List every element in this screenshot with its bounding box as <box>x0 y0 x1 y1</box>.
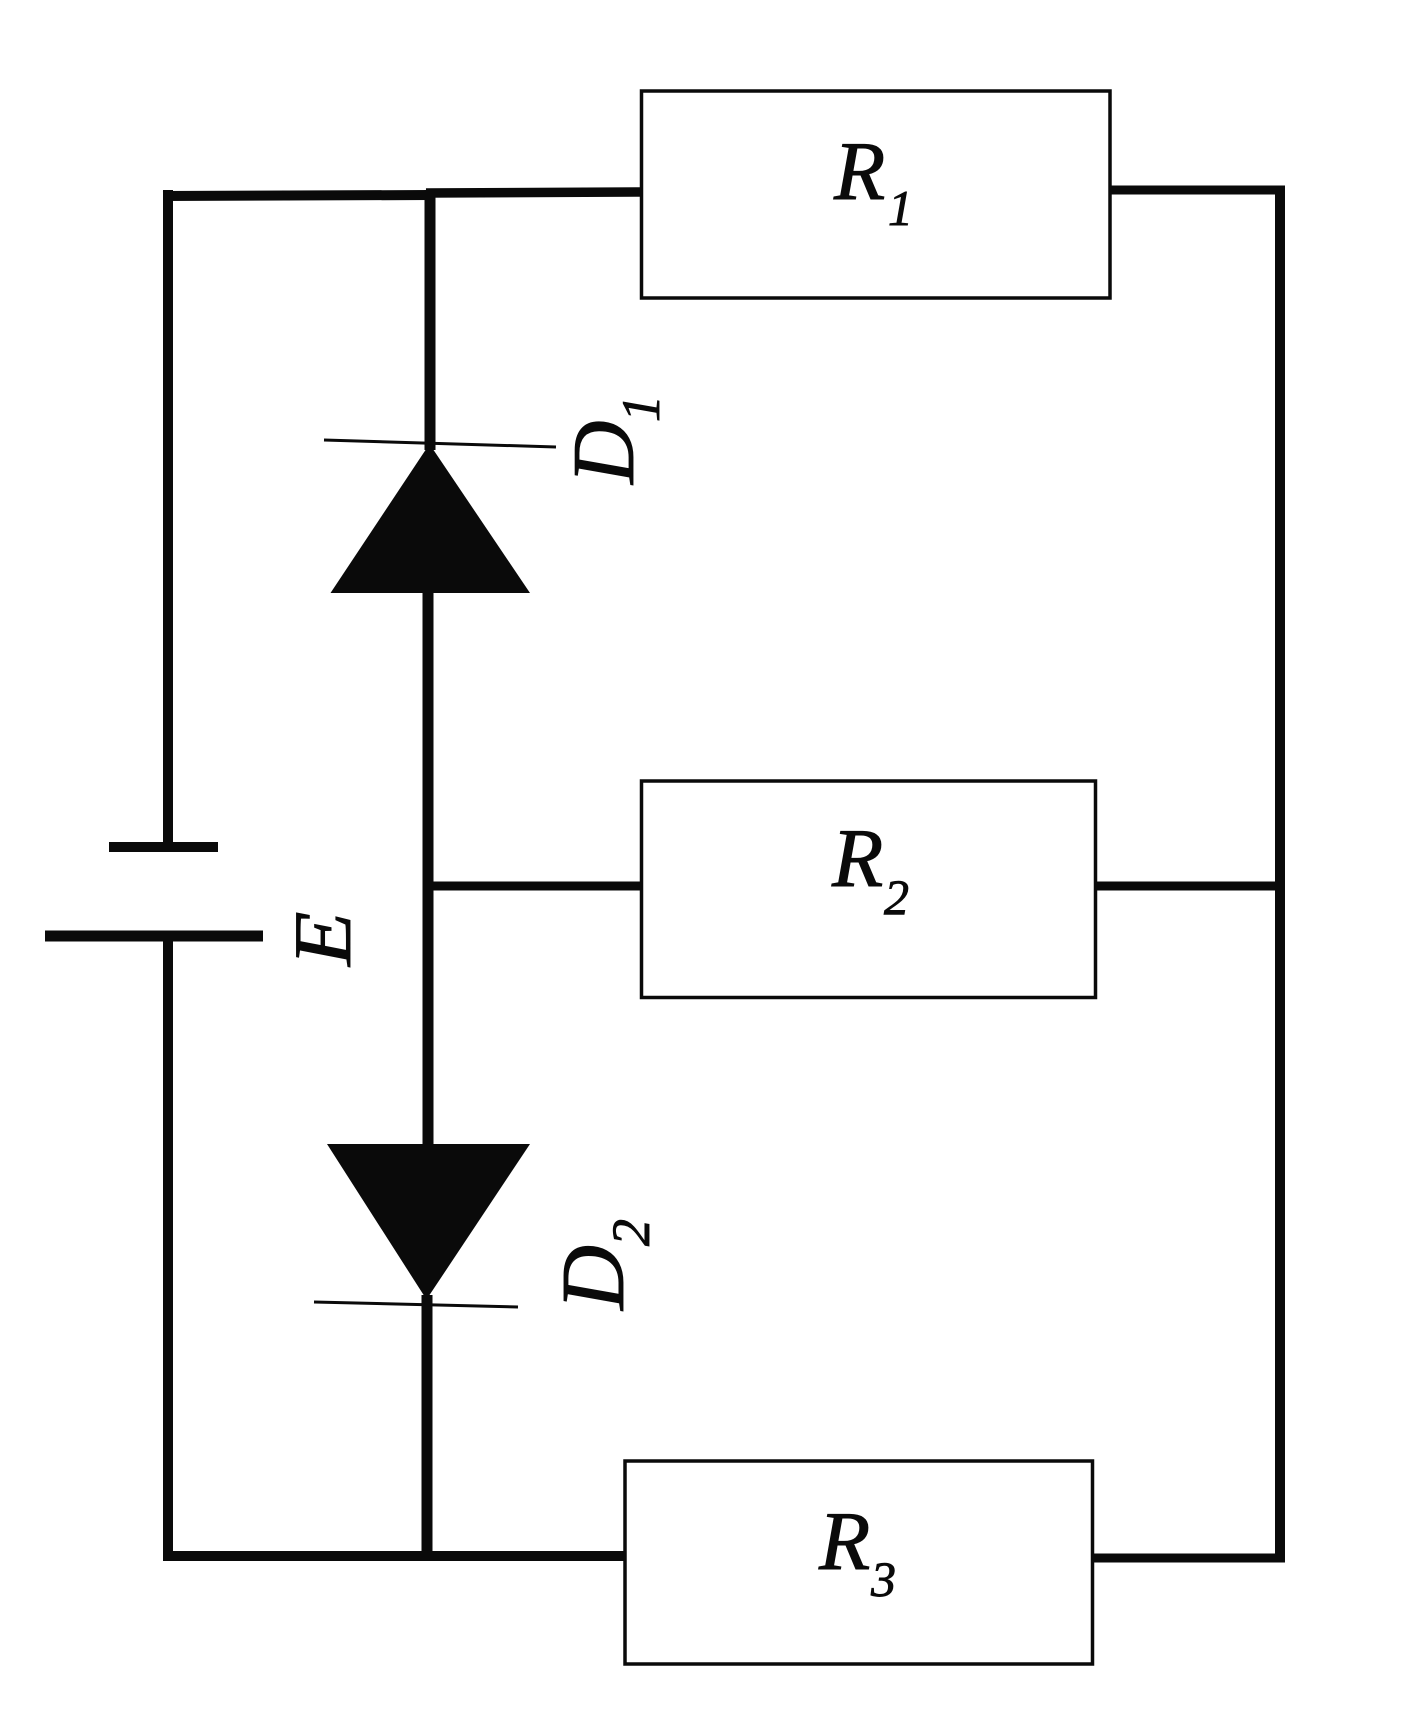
resistor R3 box <box>625 1461 1093 1664</box>
svg-text:1: 1 <box>611 395 671 422</box>
diode D1 (pointing up) <box>331 444 531 593</box>
svg-text:2: 2 <box>884 869 909 925</box>
wire bottom horizontal right (R3 right to right rail) <box>1092 1554 1285 1563</box>
diode D2 (pointing down) <box>327 1144 530 1300</box>
label D1 <box>556 395 671 485</box>
wire R2 right to right rail <box>1095 882 1285 891</box>
svg-text:3: 3 <box>870 1551 896 1607</box>
wire right vertical rail <box>1275 186 1285 1561</box>
svg-text:R: R <box>818 1495 870 1588</box>
battery E top plate (short) <box>109 842 218 852</box>
label R3 <box>818 1495 896 1607</box>
svg-text:R: R <box>833 125 885 218</box>
wire top horizontal (junction to R1 left) <box>426 192 645 193</box>
wire left vertical upper (battery top) <box>163 190 173 847</box>
wire middle horizontal (to R2 left) <box>423 882 645 891</box>
wire R1 right to right rail <box>1110 186 1285 195</box>
wire middle vertical (D2 to bottom node) <box>422 1295 433 1561</box>
wire middle vertical (top node to D1) <box>425 190 436 450</box>
wire top horizontal (battery+ to R1 left) <box>163 195 432 196</box>
svg-text:D: D <box>556 420 653 485</box>
svg-text:E: E <box>277 912 368 968</box>
resistor R2 box <box>642 781 1096 998</box>
label D2 <box>544 1219 661 1312</box>
diode D2 cathode bar <box>314 1302 518 1307</box>
resistor R1 box <box>642 91 1111 298</box>
svg-text:D: D <box>544 1245 643 1312</box>
label R1 <box>833 125 913 236</box>
wire left vertical lower (battery bottom) <box>163 931 173 1561</box>
svg-text:R: R <box>831 812 883 905</box>
label R2 <box>831 812 909 925</box>
wire bottom horizontal left (battery- to R3 left) <box>163 1551 628 1561</box>
wire middle vertical (D1 to D2) <box>423 590 434 1150</box>
diode D1 cathode bar <box>324 440 556 447</box>
svg-text:1: 1 <box>888 180 913 236</box>
svg-text:2: 2 <box>601 1219 661 1246</box>
battery E bottom plate (long) <box>45 931 263 942</box>
label E <box>277 912 368 968</box>
